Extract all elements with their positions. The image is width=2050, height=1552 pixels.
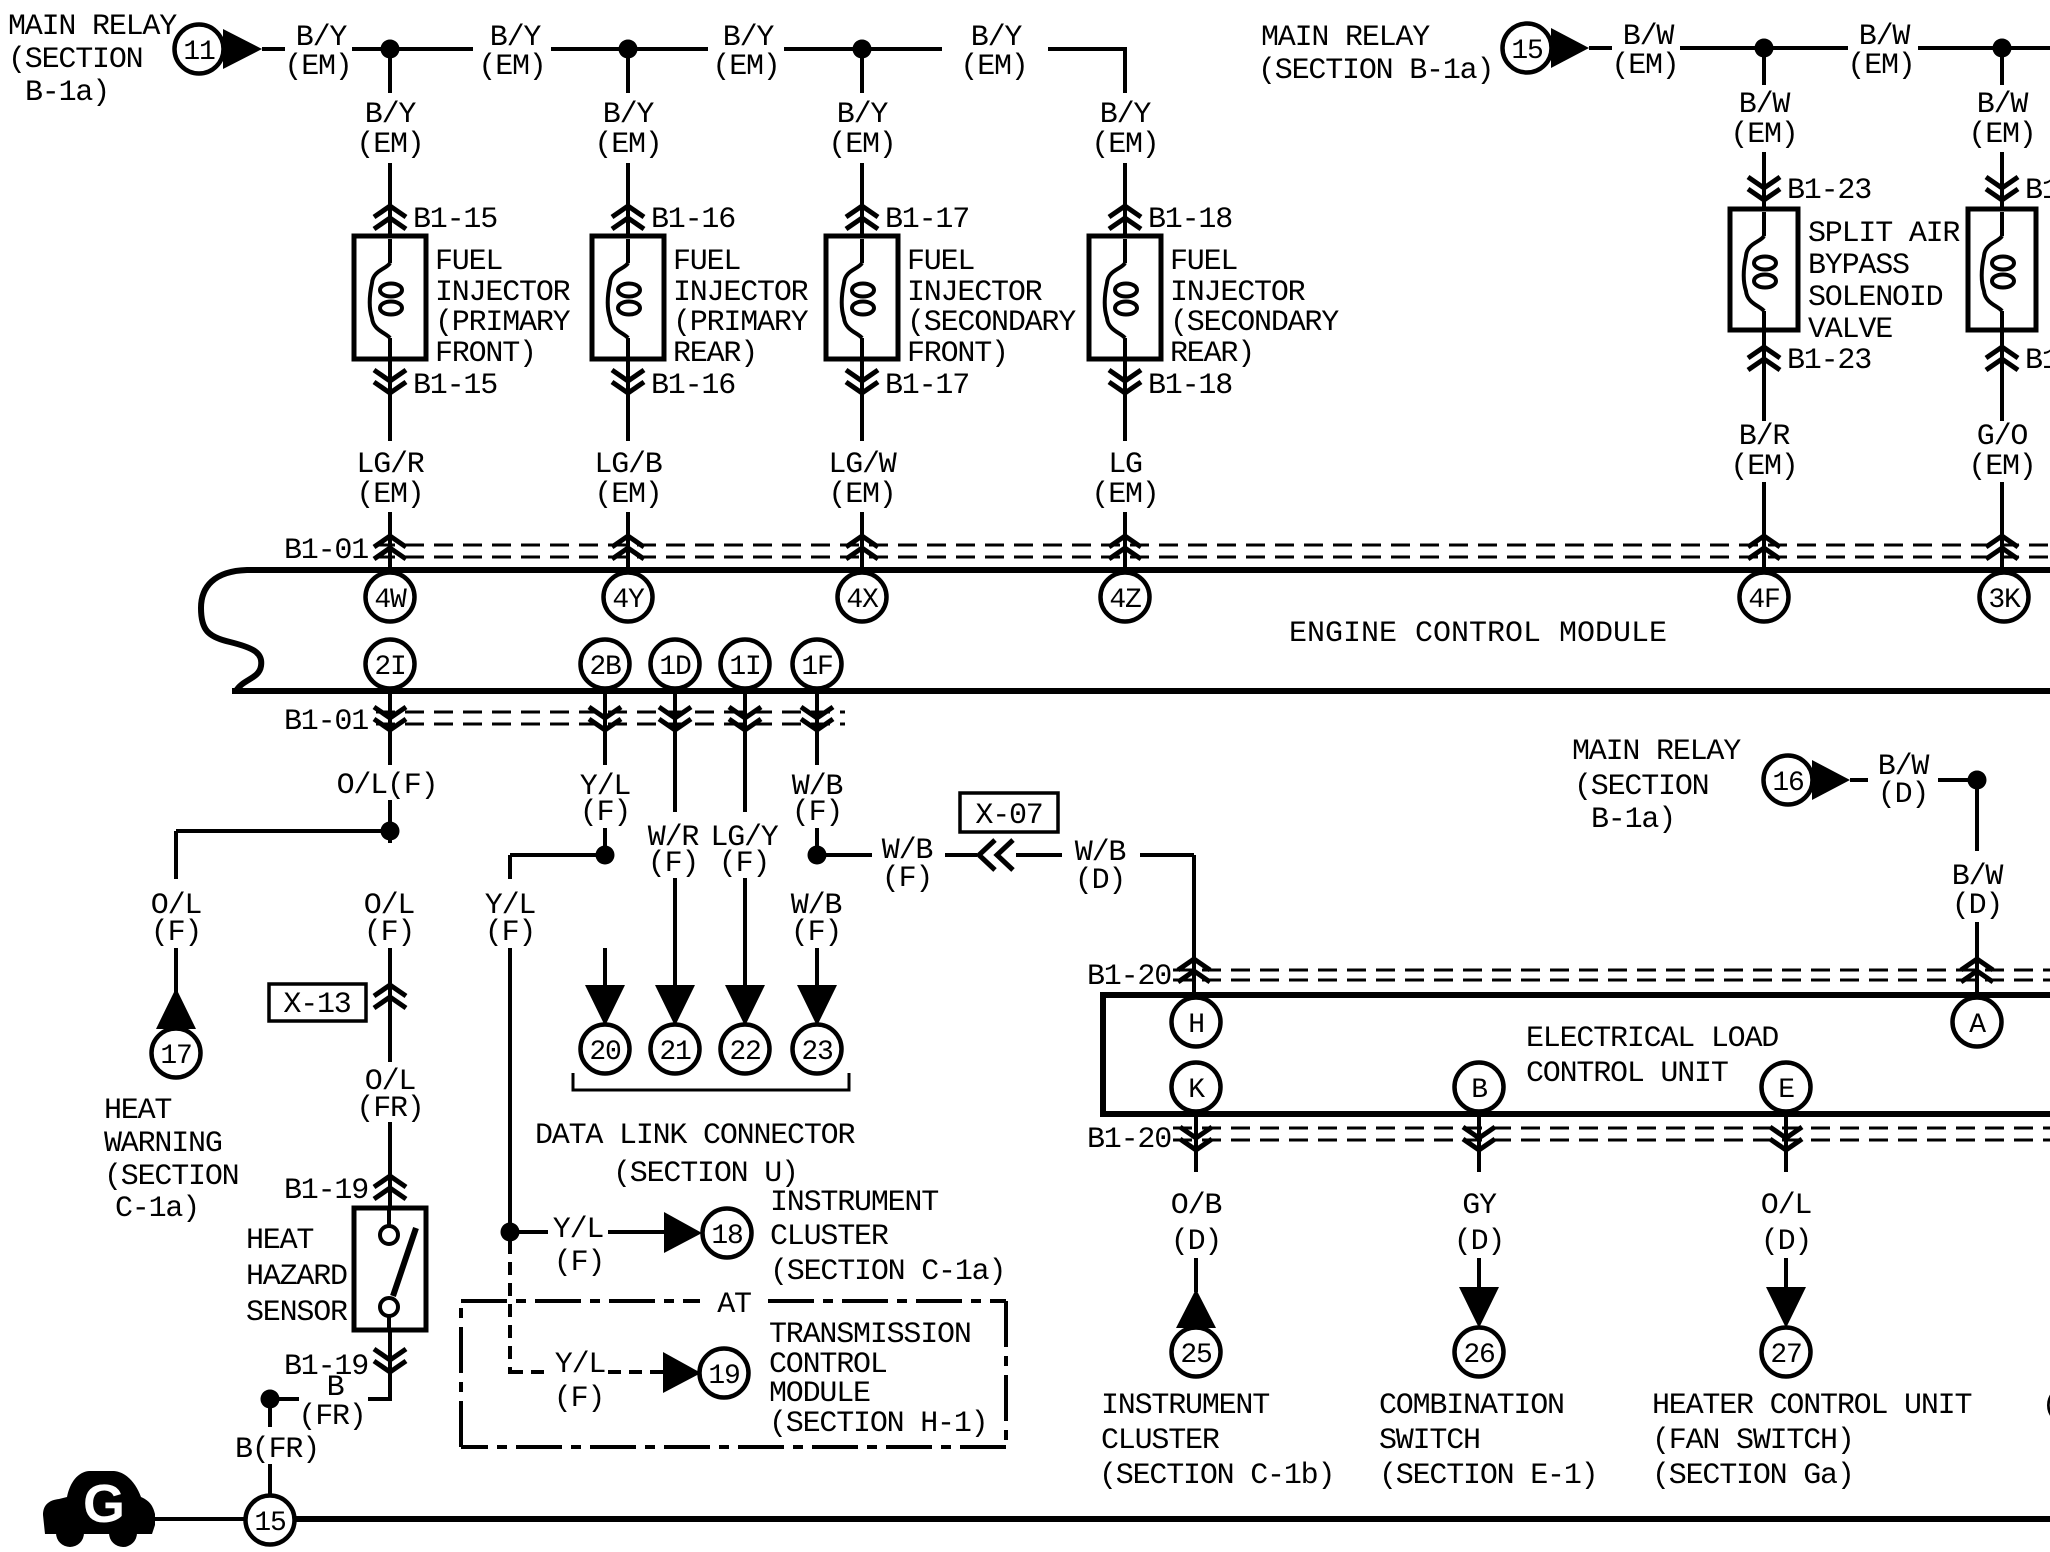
- svg-text:(SECTION E-1): (SECTION E-1): [1379, 1459, 1597, 1493]
- svg-text:INJECTOR: INJECTOR: [1170, 276, 1306, 310]
- svg-text:B/W: B/W: [1739, 88, 1791, 122]
- ECM pin 2B: [581, 640, 630, 689]
- wire to ground circle 15: [268, 1464, 272, 1496]
- ECM pin 3K: [1980, 573, 2029, 622]
- connector B1-23 (bottom): [1748, 347, 1780, 370]
- svg-text:HEAT: HEAT: [104, 1094, 171, 1128]
- ECM pin 1I: [721, 640, 770, 689]
- svg-text:(: (: [2042, 1389, 2050, 1423]
- heat hazard sensor switch: [380, 1208, 416, 1330]
- wire below injector 1: [388, 359, 392, 441]
- connector B1-16 (top): [612, 206, 644, 229]
- arrow to instrument cluster 25: [1176, 1289, 1216, 1328]
- connector B1-01 chevron: [1748, 536, 1780, 559]
- arrow to heater control unit 27: [1766, 1287, 1806, 1328]
- svg-text:B1-17: B1-17: [885, 369, 969, 403]
- svg-text:SOLENOID: SOLENOID: [1808, 281, 1943, 315]
- wire below solenoid: [1762, 330, 1766, 421]
- connector B1-01 chevron: [1109, 536, 1141, 559]
- svg-text:(SECTION: (SECTION: [104, 1160, 238, 1194]
- fuel injector 2 coil: [608, 239, 640, 358]
- svg-text:Y/L: Y/L: [553, 1213, 604, 1247]
- svg-text:B: B: [1471, 1075, 1487, 1106]
- ground bus: [294, 1516, 2050, 1522]
- svg-text:(D): (D): [1761, 1225, 1811, 1259]
- svg-text:(EM): (EM): [1730, 450, 1797, 484]
- svg-text:(EM): (EM): [594, 128, 661, 162]
- svg-text:FUEL: FUEL: [1170, 245, 1237, 279]
- svg-text:O/L(F): O/L(F): [337, 769, 438, 803]
- arrow to instrument cluster: [664, 1212, 702, 1253]
- wire Y/L long drop: [508, 948, 512, 1232]
- svg-text:G: G: [83, 1474, 125, 1534]
- connector circle 15: [1503, 24, 1552, 73]
- wire below injector 4: [1123, 359, 1127, 441]
- svg-text:X-07: X-07: [975, 799, 1042, 833]
- svg-text:(D): (D): [1454, 1225, 1504, 1259]
- svg-text:H: H: [1188, 1010, 1204, 1041]
- B1-20 lower bus dashed line 2: [1173, 1139, 2050, 1142]
- svg-text:(D): (D): [1878, 778, 1928, 812]
- svg-text:B/Y: B/Y: [603, 98, 655, 132]
- svg-text:Y/L: Y/L: [555, 1348, 606, 1382]
- svg-text:18: 18: [711, 1221, 742, 1252]
- svg-text:WARNING: WARNING: [104, 1127, 222, 1161]
- wire Y/L dashed: [608, 1370, 663, 1374]
- svg-text:4F: 4F: [1748, 585, 1779, 616]
- ECM pin 4X: [838, 573, 887, 622]
- svg-text:(EM): (EM): [594, 478, 661, 512]
- wire below injector 3: [860, 359, 864, 441]
- svg-text:B/Y: B/Y: [365, 98, 417, 132]
- wire Y/L dashed to TCM: [508, 1241, 512, 1374]
- svg-text:O/L: O/L: [1761, 1189, 1812, 1223]
- svg-text:4Z: 4Z: [1109, 585, 1141, 616]
- svg-text:(PRIMARY: (PRIMARY: [435, 306, 571, 340]
- wire W/B: [815, 828, 819, 862]
- connector B1-01 chevron (lower): [801, 707, 833, 730]
- svg-text:2I: 2I: [374, 652, 405, 683]
- ECM pin 2I: [366, 640, 415, 689]
- svg-text:FRONT): FRONT): [435, 337, 536, 371]
- svg-text:(F): (F): [485, 916, 535, 950]
- svg-text:G/O: G/O: [1977, 420, 2028, 454]
- connector circle 25: [1172, 1328, 1221, 1377]
- svg-text:(F): (F): [580, 796, 630, 830]
- connector B1-17 (bottom): [846, 370, 878, 393]
- connector circle 18: [703, 1209, 752, 1258]
- svg-text:INSTRUMENT: INSTRUMENT: [770, 1186, 938, 1220]
- svg-text:2B: 2B: [589, 652, 621, 683]
- wire B/W: [1589, 46, 1612, 50]
- svg-text:(F): (F): [648, 847, 698, 881]
- connector B1-20 chevron (lower): [1770, 1127, 1802, 1150]
- svg-text:B1-23: B1-23: [1787, 174, 1871, 208]
- connector B1-01 chevron: [374, 536, 406, 559]
- fuel injector 4 box: [1089, 236, 1161, 359]
- svg-text:(EM): (EM): [1847, 49, 1914, 83]
- svg-text:15: 15: [1511, 36, 1543, 67]
- svg-text:(EM): (EM): [828, 478, 895, 512]
- svg-text:(EM): (EM): [1611, 49, 1678, 83]
- svg-text:INSTRUMENT: INSTRUMENT: [1101, 1389, 1269, 1423]
- svg-text:(F): (F): [364, 916, 414, 950]
- wire corner down col4: [1123, 47, 1127, 93]
- wire B/Y: [628, 47, 708, 51]
- svg-text:B1-17: B1-17: [885, 203, 969, 237]
- wire GY from ELCU B: [1477, 1114, 1481, 1172]
- wire LG/W to ECM bus: [860, 512, 864, 570]
- svg-text:(FR): (FR): [356, 1092, 423, 1126]
- svg-text:19: 19: [708, 1361, 739, 1392]
- svg-text:4Y: 4Y: [612, 585, 645, 616]
- svg-text:MODULE: MODULE: [769, 1377, 870, 1411]
- svg-text:(D): (D): [1075, 864, 1125, 898]
- svg-text:HEAT: HEAT: [246, 1224, 313, 1258]
- svg-text:(F): (F): [792, 796, 842, 830]
- svg-text:21: 21: [659, 1037, 691, 1068]
- svg-text:INJECTOR: INJECTOR: [907, 276, 1043, 310]
- wire B/Y drop col1: [388, 49, 392, 93]
- wire B/Y to connector B1-16: [626, 163, 630, 236]
- svg-text:(PRIMARY: (PRIMARY: [673, 306, 809, 340]
- svg-text:(EM): (EM): [960, 50, 1027, 84]
- svg-text:(SECTION B-1a): (SECTION B-1a): [1258, 54, 1493, 88]
- svg-text:B1-01: B1-01: [284, 705, 368, 739]
- svg-text:B1-19: B1-19: [284, 1174, 368, 1208]
- wire LG/B to ECM bus: [626, 512, 630, 570]
- svg-text:B1-23: B1-23: [2025, 344, 2050, 378]
- svg-text:SENSOR: SENSOR: [246, 1296, 348, 1330]
- B1-01 lower bus dashed line 2: [376, 723, 845, 726]
- wire B/W: [1680, 46, 1764, 50]
- svg-text:23: 23: [801, 1037, 833, 1068]
- svg-text:B/Y: B/Y: [1100, 98, 1152, 132]
- svg-text:11: 11: [183, 37, 215, 68]
- connector B1-19 (bottom): [374, 1349, 406, 1372]
- ELCU pin B: [1455, 1063, 1504, 1112]
- svg-text:22: 22: [729, 1037, 760, 1068]
- wire LG/Y from ECM 1I: [743, 691, 747, 812]
- svg-text:LG/W: LG/W: [828, 448, 896, 482]
- svg-text:1I: 1I: [729, 652, 760, 683]
- wire below injector 2: [626, 359, 630, 441]
- wire B/Y drop col3: [860, 49, 864, 93]
- wire GY: [1477, 1258, 1481, 1290]
- svg-text:CLUSTER: CLUSTER: [1101, 1424, 1220, 1458]
- wire B/Y: [262, 47, 285, 51]
- connector B1-20 chevron (lower): [1463, 1127, 1495, 1150]
- wire B/W(D) down: [1975, 780, 1979, 851]
- connector B1-16 (bottom): [612, 370, 644, 393]
- connector circle 16: [1764, 756, 1813, 805]
- svg-text:(SECTION: (SECTION: [1574, 770, 1708, 804]
- arrow to DLC 23: [797, 985, 837, 1026]
- wire B/W to connector B1-23: [1762, 152, 1766, 209]
- wire Y/L dashed corner: [510, 1370, 548, 1374]
- wire O/B: [1194, 1258, 1198, 1292]
- svg-text:1F: 1F: [801, 652, 832, 683]
- ECM pin 4F: [1740, 573, 1789, 622]
- svg-text:(D): (D): [1171, 1225, 1221, 1259]
- connector B1-18 (top): [1109, 206, 1141, 229]
- wire O/L through X-13: [388, 948, 392, 1062]
- heat hazard sensor box: [354, 1208, 426, 1330]
- connector circle 22: [721, 1025, 770, 1074]
- svg-text:AT: AT: [717, 1288, 751, 1322]
- svg-text:17: 17: [160, 1041, 191, 1072]
- wire below solenoid: [2000, 330, 2004, 421]
- connector B1-01 chevron: [846, 536, 878, 559]
- connector circle 11: [175, 25, 224, 74]
- svg-text:(EM): (EM): [356, 128, 423, 162]
- svg-text:B1-23: B1-23: [2025, 174, 2050, 208]
- svg-text:B1-20: B1-20: [1087, 960, 1171, 994]
- svg-text:(SECTION U): (SECTION U): [613, 1157, 798, 1191]
- junction node Y/L: [596, 846, 615, 865]
- ECM pin 4Z: [1101, 573, 1150, 622]
- svg-text:X-13: X-13: [283, 988, 350, 1022]
- svg-text:25: 25: [1180, 1340, 1212, 1371]
- svg-text:C-1a): C-1a): [115, 1192, 199, 1226]
- wire O/L from ELCU E: [1784, 1114, 1788, 1172]
- arrow to heat warning: [156, 988, 196, 1029]
- junction node col6: [1993, 39, 2012, 58]
- wire B/Y: [390, 47, 473, 51]
- svg-text:(SECTION: (SECTION: [8, 43, 142, 77]
- wire Y/L to DLC: [603, 948, 607, 988]
- svg-text:B-1a): B-1a): [1591, 803, 1675, 837]
- wire B/Y to connector B1-15: [388, 163, 392, 236]
- svg-text:B1-20: B1-20: [1087, 1123, 1171, 1157]
- wire B/Y drop col2: [626, 49, 630, 93]
- wire ground to circle 15: [155, 1517, 246, 1521]
- svg-text:CLUSTER: CLUSTER: [770, 1220, 889, 1254]
- wire B(FR) down: [268, 1399, 272, 1427]
- wire O/L: [1784, 1258, 1788, 1290]
- wire B/Y to corner: [1048, 47, 1127, 51]
- svg-text:REAR): REAR): [1170, 337, 1254, 371]
- svg-text:16: 16: [1772, 768, 1803, 799]
- ground symbol (car): [43, 1471, 155, 1547]
- connector B1-01 chevron (lower): [729, 707, 761, 730]
- svg-text:B1-15: B1-15: [413, 203, 497, 237]
- wire O/L from ECM 2I: [388, 691, 392, 765]
- wire W/B branch right: [817, 853, 872, 857]
- svg-text:B/W: B/W: [1977, 88, 2029, 122]
- connector circle 27: [1762, 1328, 1811, 1377]
- ECM pin 1F: [793, 640, 842, 689]
- svg-text:HAZARD: HAZARD: [246, 1260, 347, 1294]
- B1-20 bus dashed line 1: [1173, 969, 2050, 972]
- wire W/R from ECM 1D: [673, 691, 677, 812]
- svg-text:(F): (F): [554, 1382, 604, 1416]
- wire B/W drop sol1: [1762, 48, 1766, 85]
- junction node col2: [619, 40, 638, 59]
- B1-20 lower bus dashed line 1: [1173, 1127, 2050, 1130]
- X-07 box: [960, 793, 1058, 832]
- arrow to DLC 22: [725, 985, 765, 1026]
- wire O/L to heat warning: [174, 948, 178, 992]
- ECM pin 1D: [651, 640, 700, 689]
- svg-text:B/R: B/R: [1739, 420, 1791, 454]
- connector B1-23 (bottom): [1986, 347, 2018, 370]
- fuel injector 1 box: [354, 236, 426, 359]
- connector B1-20 chevron H: [1178, 959, 1210, 982]
- connector B1-15 (bottom): [374, 370, 406, 393]
- DLC bracket: [573, 1073, 849, 1090]
- svg-text:O/B: O/B: [1171, 1189, 1222, 1223]
- wire B/Y: [862, 47, 942, 51]
- svg-text:REAR): REAR): [673, 337, 757, 371]
- solenoid valve 2 coil: [1982, 212, 2014, 329]
- fuel injector 4 coil: [1105, 239, 1137, 358]
- connector B1-15 (top): [374, 206, 406, 229]
- wire B/W: [1764, 46, 1848, 50]
- svg-text:(SECTION C-1b): (SECTION C-1b): [1099, 1459, 1334, 1493]
- svg-text:(EM): (EM): [478, 50, 545, 84]
- connector B1-20 chevron (lower): [1180, 1127, 1212, 1150]
- connector circle 26: [1455, 1328, 1504, 1377]
- ELCU pin H: [1172, 998, 1221, 1047]
- wire B/Y: [352, 47, 390, 51]
- svg-text:SWITCH: SWITCH: [1379, 1424, 1480, 1458]
- svg-text:(F): (F): [719, 847, 769, 881]
- arrow to TCM: [663, 1352, 701, 1393]
- connector circle 21: [651, 1025, 700, 1074]
- arrow from relay 11: [223, 29, 262, 69]
- B1-01 bus dashed line 2: [376, 556, 2050, 559]
- ECM pin 4W: [366, 573, 415, 622]
- svg-text:B(FR): B(FR): [235, 1433, 319, 1467]
- wire B/W: [1918, 46, 2002, 50]
- svg-text:(EM): (EM): [1968, 450, 2035, 484]
- svg-text:(SECONDARY: (SECONDARY: [1170, 306, 1339, 340]
- fuel injector 1 coil: [370, 239, 402, 358]
- wire W/B to DLC: [815, 948, 819, 988]
- svg-text:(SECONDARY: (SECONDARY: [907, 306, 1076, 340]
- arrow to DLC 20: [585, 985, 625, 1026]
- svg-text:LG/B: LG/B: [594, 448, 661, 482]
- connector B1-01 chevron (lower): [374, 707, 406, 730]
- wire Y/L down: [508, 855, 512, 879]
- svg-text:MAIN RELAY: MAIN RELAY: [1261, 21, 1430, 55]
- junction node W/B: [808, 846, 827, 865]
- svg-text:(F): (F): [554, 1246, 604, 1280]
- svg-text:(F): (F): [791, 916, 841, 950]
- arrow from relay 15: [1551, 28, 1589, 68]
- wire O/L down left: [174, 831, 178, 879]
- wire O/L: [388, 800, 392, 843]
- wire O/L branch left: [176, 829, 390, 833]
- svg-text:B1-18: B1-18: [1148, 203, 1232, 237]
- svg-text:(EM): (EM): [356, 478, 423, 512]
- connector X-13 chevron: [374, 985, 406, 1008]
- ELCU pin A: [1953, 998, 2002, 1047]
- wire B/W to edge: [2002, 46, 2050, 50]
- svg-text:MAIN RELAY: MAIN RELAY: [8, 10, 177, 44]
- svg-text:CONTROL UNIT: CONTROL UNIT: [1526, 1057, 1728, 1091]
- B1-01 lower bus dashed line 1: [376, 711, 845, 714]
- junction node col5: [1755, 39, 1774, 58]
- ECM pin 4Y: [604, 573, 653, 622]
- wire B/Y to connector B1-17: [860, 163, 864, 236]
- connector circle 19: [700, 1349, 749, 1398]
- junction node Y/L lower: [501, 1223, 520, 1242]
- fuel injector 2 box: [592, 236, 664, 359]
- fuel injector 3 coil: [842, 239, 874, 358]
- ELCU pin E: [1762, 1063, 1811, 1112]
- svg-text:B-1a): B-1a): [25, 76, 109, 110]
- svg-text:VALVE: VALVE: [1808, 313, 1892, 347]
- svg-text:LG/R: LG/R: [356, 448, 424, 482]
- connector B1-17 (top): [846, 206, 878, 229]
- junction node col1: [381, 40, 400, 59]
- svg-text:(EM): (EM): [712, 50, 779, 84]
- junction node B(FR): [261, 1390, 280, 1409]
- engine control module bottom edge: [232, 688, 2050, 694]
- AT dashed box (transmission control module): [461, 1301, 1006, 1447]
- svg-text:FUEL: FUEL: [435, 245, 502, 279]
- solenoid valve 1 box: [1730, 209, 1798, 330]
- connector circle 15 (ground): [246, 1496, 295, 1545]
- svg-text:B1-18: B1-18: [1148, 369, 1232, 403]
- wire Y/L: [608, 1230, 666, 1234]
- wire B/W to connector B1-23: [2000, 152, 2004, 209]
- svg-text:A: A: [1969, 1010, 1986, 1041]
- svg-text:DATA LINK CONNECTOR: DATA LINK CONNECTOR: [535, 1119, 855, 1153]
- wire G/O to ECM bus: [2000, 482, 2004, 570]
- svg-text:(EM): (EM): [1968, 118, 2035, 152]
- arrow to DLC 21: [655, 985, 695, 1026]
- connector circle 20: [581, 1025, 630, 1074]
- connector B1-23 (top): [1748, 177, 1780, 200]
- svg-text:B1-23: B1-23: [1787, 344, 1871, 378]
- svg-text:27: 27: [1770, 1340, 1801, 1371]
- connector circle 23: [793, 1025, 842, 1074]
- svg-text:K: K: [1188, 1075, 1205, 1106]
- X-13 box: [269, 984, 366, 1021]
- svg-text:HEATER CONTROL UNIT: HEATER CONTROL UNIT: [1652, 1389, 1971, 1423]
- wire B(FR) below sensor: [388, 1330, 392, 1399]
- svg-text:4X: 4X: [846, 585, 879, 616]
- engine control module top edge with brace: [201, 570, 2050, 691]
- wire W/B: [1016, 853, 1062, 857]
- connector B1-01 chevron (lower): [589, 707, 621, 730]
- wire O/B from ELCU K: [1194, 1114, 1198, 1172]
- wire B(FR) stub: [279, 1397, 299, 1401]
- svg-text:4W: 4W: [374, 585, 407, 616]
- connector B1-19 (top): [374, 1176, 406, 1199]
- svg-text:FUEL: FUEL: [907, 245, 974, 279]
- svg-text:(D): (D): [1952, 889, 2002, 923]
- wire B/W(D): [1938, 778, 1977, 782]
- wire B/W(D) to ELCU: [1975, 922, 1979, 995]
- svg-text:ELECTRICAL LOAD: ELECTRICAL LOAD: [1526, 1022, 1778, 1056]
- svg-text:B1-16: B1-16: [651, 203, 735, 237]
- connector B1-18 (bottom): [1109, 370, 1141, 393]
- connector B1-23 (top): [1986, 177, 2018, 200]
- wire W/B: [945, 853, 977, 857]
- wire LG/R to ECM bus: [388, 512, 392, 570]
- wire B/Y: [551, 47, 628, 51]
- B1-20 bus dashed line 2: [1173, 979, 2050, 982]
- svg-text:(FR): (FR): [298, 1400, 365, 1434]
- svg-text:20: 20: [589, 1037, 621, 1068]
- electrical load control unit box: [1103, 995, 2050, 1114]
- svg-text:B1-15: B1-15: [413, 369, 497, 403]
- wire LG to ECM bus: [1123, 512, 1127, 570]
